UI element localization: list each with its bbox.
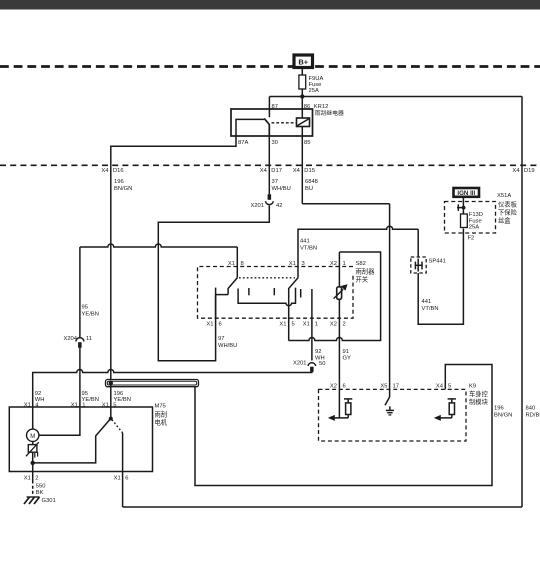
svg-text:1: 1 [343, 261, 346, 267]
net label 196 BN/GN [114, 179, 132, 192]
net label 95 YE/BN (left) [82, 391, 99, 403]
svg-text:G301: G301 [42, 498, 56, 504]
svg-text:95: 95 [82, 391, 88, 397]
wire 95 YE/BN from X204 to motor X1-1 [79, 348, 81, 373]
svg-text:M: M [30, 434, 35, 440]
wire motor X1-2 to ground [32, 463, 34, 481]
svg-text:196: 196 [114, 179, 124, 185]
wire 37 WH/BU from relay 30 to connector X201-42 [268, 136, 270, 194]
wire 86 coil feed [301, 97, 303, 119]
svg-text:6: 6 [125, 475, 128, 481]
net label 550 BK [36, 484, 46, 496]
svg-text:制模块: 制模块 [469, 397, 489, 406]
connector label X4 D16 [101, 168, 123, 174]
wire from splice right end down and to K9 [195, 365, 492, 486]
svg-text:95: 95 [82, 305, 88, 311]
relay KR12 name label [314, 104, 344, 117]
svg-text:X1: X1 [228, 261, 235, 267]
svg-text:S82: S82 [356, 261, 366, 267]
svg-text:6: 6 [219, 322, 222, 328]
svg-text:3: 3 [302, 261, 305, 267]
thermal protector below motor [26, 442, 39, 463]
switch X1-6 contact and wire 97 WH/BU down [216, 288, 229, 319]
relay armature from pin 30 [264, 118, 269, 136]
K9 driver output at X4-5 [434, 399, 456, 421]
svg-text:B+: B+ [298, 58, 308, 67]
wire 550 BK dashed to ground [32, 481, 34, 496]
fuse block label X51A [497, 193, 518, 224]
switch pole 1 arm from X1-8 [228, 278, 237, 295]
svg-text:F13D: F13D [469, 212, 483, 218]
svg-text:BU: BU [305, 186, 313, 192]
wire 196 YE/BN from splice to motor X1-5 [110, 381, 112, 419]
switch contact tick 3 [300, 289, 302, 298]
svg-text:196: 196 [114, 391, 124, 397]
wire motor X1-6 down [122, 433, 124, 472]
svg-text:6848: 6848 [305, 179, 318, 185]
svg-text:X201: X201 [250, 203, 264, 209]
svg-text:91: 91 [343, 349, 349, 355]
splice SP441 dashed box [411, 257, 446, 273]
wire 441 from fuse F2 down, left and up to SP441 [418, 229, 463, 325]
junction node at motor common [31, 461, 35, 465]
svg-text:17: 17 [393, 384, 399, 390]
svg-text:92: 92 [35, 391, 41, 397]
relay coil [297, 118, 310, 127]
svg-text:RD/BU: RD/BU [526, 412, 540, 418]
svg-text:50: 50 [319, 361, 325, 367]
svg-text:VT/BN: VT/BN [422, 306, 439, 312]
svg-text:85: 85 [304, 140, 310, 146]
svg-text:2: 2 [35, 475, 38, 481]
svg-text:X2: X2 [330, 261, 337, 267]
svg-text:X4: X4 [101, 168, 109, 174]
svg-text:D15: D15 [304, 168, 315, 174]
wire 6848 BU from coil pin 85 to X4-D15 and down [302, 127, 389, 390]
net label 441 VT/BN (right) [422, 299, 439, 312]
svg-text:仪表板: 仪表板 [498, 199, 518, 208]
switch pole 2 arm from X1-3 to X1-5 [289, 278, 298, 341]
svg-text:D19: D19 [524, 168, 535, 174]
connector X201 pin 50 [293, 361, 326, 372]
net label 92 WH (left) [35, 391, 45, 403]
svg-text:X5: X5 [380, 384, 387, 390]
svg-text:92: 92 [315, 349, 321, 355]
relay KR12 box [231, 109, 313, 136]
svg-text:550: 550 [36, 484, 46, 490]
svg-text:X4: X4 [293, 168, 301, 174]
connector rail X4 (lower dashed bus) [0, 164, 540, 166]
pin label X1 3 [289, 261, 305, 267]
svg-text:WH/BU: WH/BU [218, 343, 237, 349]
svg-text:5: 5 [448, 384, 451, 390]
svg-text:SP441: SP441 [429, 259, 446, 265]
wiper motor M75 box [9, 407, 152, 472]
svg-text:WH/BU: WH/BU [272, 186, 291, 192]
pin label X1 6 (switch bottom) [206, 322, 221, 328]
motor symbol [27, 429, 39, 441]
pin label X1 5 (motor) [102, 402, 117, 408]
svg-text:下保险: 下保险 [498, 207, 518, 216]
wire IGN III to fuse F13D [462, 197, 464, 214]
svg-text:K9: K9 [469, 384, 476, 390]
fuse block X51A dashed box [445, 202, 496, 234]
body control module K9 dashed box [319, 389, 467, 441]
wire to relay pin 87 [268, 97, 270, 118]
wire motor X1-1 into motor [39, 373, 80, 436]
junction node in splice bar [109, 381, 113, 385]
svg-text:1: 1 [315, 322, 318, 328]
relay mechanical dotted link [272, 122, 297, 124]
svg-text:X204: X204 [63, 336, 77, 342]
svg-text:BK: BK [36, 490, 44, 496]
switch wire X1-1 down to X201-50 [311, 289, 313, 361]
svg-text:30: 30 [272, 140, 278, 146]
svg-text:441: 441 [300, 239, 310, 245]
svg-text:196: 196 [494, 406, 504, 412]
svg-text:KR12: KR12 [314, 104, 329, 110]
pin label X1 1 (switch bottom) [303, 322, 318, 328]
wiper switch S82 dashed box [198, 267, 354, 319]
net label 6848 BU [305, 179, 318, 192]
svg-text:D17: D17 [271, 168, 282, 174]
svg-text:X201: X201 [293, 361, 307, 367]
net label 97 WH/BU [218, 336, 237, 349]
switch contact tick 2 [273, 288, 275, 295]
ground G301 [24, 497, 56, 504]
svg-text:X2: X2 [330, 322, 337, 328]
net label 196 YE/BN [114, 391, 131, 403]
svg-text:YE/BN: YE/BN [82, 312, 99, 318]
svg-text:X4: X4 [512, 168, 520, 174]
K9 driver output at X2-6 [328, 399, 353, 421]
park switch dotted throw [112, 420, 123, 433]
svg-text:IGN III: IGN III [457, 190, 475, 197]
svg-text:车身控: 车身控 [469, 389, 489, 398]
net label 441 VT/BN (left) [300, 239, 317, 252]
connector label X4 D17 [260, 168, 282, 174]
wire feed rail from fuse to relay 87 and to X4-D19 [269, 96, 522, 98]
splice SP441 symbol [415, 259, 423, 272]
svg-text:丝盒: 丝盒 [498, 216, 511, 225]
svg-text:X1: X1 [289, 261, 296, 267]
pin label X1 8 [228, 261, 244, 267]
svg-text:87A: 87A [238, 140, 248, 146]
potentiometer in S82 [334, 284, 348, 299]
net label 91 GY [343, 349, 352, 362]
module K9 name label [469, 384, 489, 407]
svg-text:97: 97 [218, 336, 224, 342]
switch S82 name label [356, 261, 376, 284]
pin label X2 6 [330, 384, 346, 390]
svg-text:86: 86 [304, 104, 310, 110]
svg-text:X1: X1 [206, 322, 213, 328]
svg-text:87: 87 [272, 104, 278, 110]
pin label X2 2 (switch bottom) [330, 322, 346, 328]
wire 97 WH/BU route from X201-42 to switch X1-6 [158, 206, 269, 361]
svg-text:8: 8 [241, 261, 244, 267]
svg-text:电机: 电机 [155, 418, 168, 427]
net label 196 BN/GN (right) [494, 406, 512, 419]
svg-text:25A: 25A [469, 224, 479, 230]
top toolbar bar [0, 0, 540, 10]
wire X2-1 up over and down to X1-5 (loop, hops over X1-1 and X2-2) [289, 252, 381, 341]
bus tap symbol with node [457, 204, 466, 211]
switch contact rail with hop [238, 288, 295, 306]
pin label X1 4 (motor) [24, 402, 40, 408]
motor M75 name label [155, 404, 168, 427]
junction node at park switch pivot [109, 417, 113, 421]
wire 196 BN/GN from relay 87A to X4-D16 and down to splice bar [111, 136, 236, 381]
pin label X1 1 (motor) [71, 402, 86, 408]
wire 92 WH from X201-50 left to motor X1-4 (hops over two verticals) [33, 370, 312, 430]
pin label X1 6 (motor bottom) [114, 475, 129, 481]
svg-text:Fuse: Fuse [469, 218, 482, 224]
svg-text:6: 6 [343, 384, 346, 390]
svg-text:BN/GN: BN/GN [494, 412, 512, 418]
svg-text:840: 840 [526, 406, 536, 412]
svg-text:M75: M75 [155, 404, 166, 410]
connector X204 pin 11 [63, 336, 92, 348]
svg-text:F2: F2 [468, 236, 475, 242]
fuse F13D 25A [461, 212, 483, 230]
junction node at fuse output [300, 94, 304, 98]
svg-text:BN/GN: BN/GN [114, 186, 132, 192]
svg-text:25A: 25A [309, 88, 319, 94]
pin label X1 2 (motor bottom) [24, 475, 39, 481]
wire 91 GY from X2-2 down to K9 X2-6 [338, 299, 340, 418]
K9 ground switch at X5-17 [385, 389, 394, 415]
connector label X4 D19 [512, 168, 534, 174]
svg-text:X1: X1 [114, 475, 121, 481]
switch mechanical dotted link [239, 277, 295, 279]
svg-text:X51A: X51A [497, 193, 511, 199]
svg-text:雨刮器: 雨刮器 [356, 267, 376, 276]
svg-text:雨刮: 雨刮 [155, 410, 168, 419]
IGN III feed box [454, 188, 480, 197]
wire 441 VT/BN horizontal to switch X1-3 (hop over 6848 wire) [298, 226, 418, 278]
svg-text:X4: X4 [260, 168, 268, 174]
wire 840 RD/BU right side: down to D19 and bottom to motor X1-6 [521, 97, 523, 508]
wire B+ to fuse F9UA [301, 68, 303, 97]
svg-text:GY: GY [343, 356, 352, 362]
svg-text:42: 42 [276, 203, 282, 209]
B+ battery terminal [294, 55, 313, 68]
connector X201 pin 42 [250, 194, 282, 209]
pin label X5 17 [380, 384, 399, 390]
fuse F9UA 25A [299, 75, 324, 94]
svg-text:X1: X1 [279, 322, 286, 328]
svg-text:11: 11 [86, 336, 92, 342]
pin label X2 1 [330, 261, 346, 267]
connector label X4 D15 [293, 168, 315, 174]
svg-text:VT/BN: VT/BN [300, 246, 317, 252]
svg-text:X1: X1 [303, 322, 310, 328]
svg-text:X2: X2 [330, 384, 337, 390]
svg-text:X1: X1 [24, 475, 31, 481]
svg-text:5: 5 [292, 322, 295, 328]
switch contact tick 1 [248, 288, 250, 295]
svg-text:雨刮继电器: 雨刮继电器 [315, 109, 345, 117]
relay 87A contact line [236, 119, 264, 136]
wire X2-1 from corner to potentiometer [338, 252, 340, 287]
splice bar (double outline) [106, 380, 199, 387]
wire 95 YE/BN from switch X1-8 to X204 and motor X1-1 (hops over two verticals) [80, 244, 237, 337]
pin label X1 5 (switch bottom) [279, 322, 294, 328]
svg-text:441: 441 [422, 299, 432, 305]
svg-text:2: 2 [343, 322, 346, 328]
net label 37 WH/BU [272, 179, 291, 192]
svg-text:开关: 开关 [356, 275, 369, 284]
net label 840 RD/BU (right edge) [526, 406, 540, 419]
net label 92 WH [315, 349, 325, 362]
svg-text:D16: D16 [113, 168, 124, 174]
motor park switch arm [33, 419, 111, 463]
battery power rail (top dashed bus) [0, 65, 540, 68]
net label 95 YE/BN [82, 305, 99, 318]
svg-text:37: 37 [272, 179, 278, 185]
pin label X4 5 [436, 384, 451, 390]
svg-text:X4: X4 [436, 384, 444, 390]
